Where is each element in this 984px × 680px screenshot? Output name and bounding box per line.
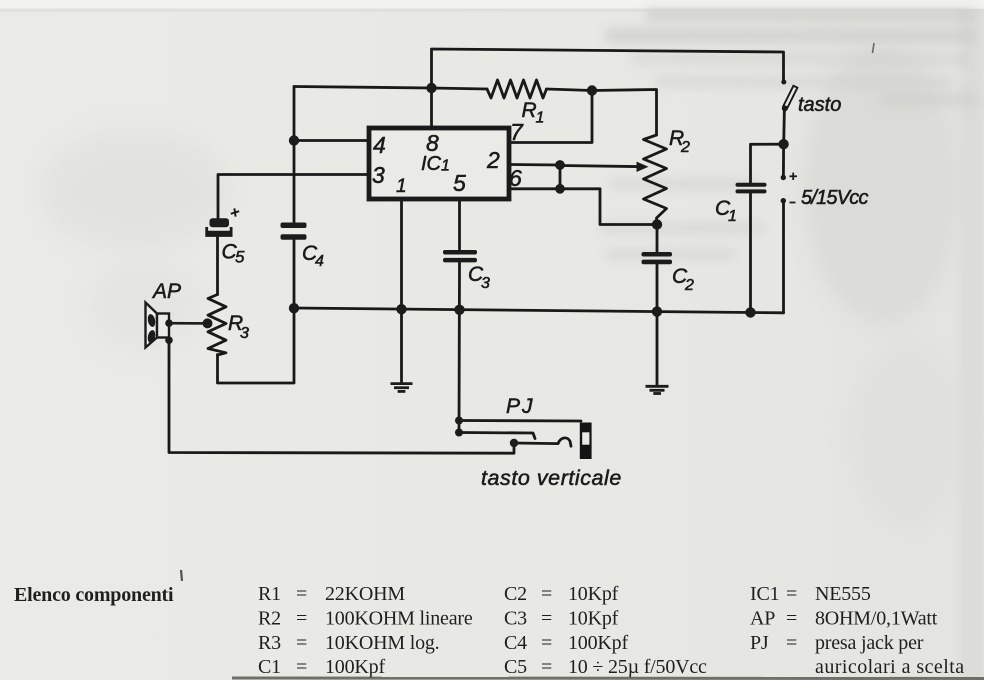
capacitor C1 <box>736 183 767 194</box>
junction: pin 2 node <box>555 160 565 170</box>
capacitor C4 <box>281 223 307 240</box>
svg-text:PJ: PJ <box>750 632 769 654</box>
svg-text:2: 2 <box>486 147 500 173</box>
svg-text:Elenco componenti: Elenco componenti <box>14 584 174 606</box>
svg-text:PJ: PJ <box>506 395 535 418</box>
svg-text:4: 4 <box>373 132 386 158</box>
svg-text:AP: AP <box>151 280 181 303</box>
svg-text:100KOHM lineare: 100KOHM lineare <box>325 608 473 630</box>
svg-text:1: 1 <box>441 158 450 175</box>
junction: bus / pin 5 node <box>454 305 464 315</box>
svg-text:100Kpf: 100Kpf <box>568 632 628 654</box>
svg-text:auricolari a scelta: auricolari a scelta <box>815 656 965 678</box>
svg-text:2: 2 <box>684 277 694 294</box>
wire R3 bottom return <box>218 309 295 384</box>
battery + terminal <box>781 175 786 180</box>
wire jack ring line <box>459 433 535 439</box>
svg-text:3: 3 <box>372 162 385 188</box>
svg-text:=: = <box>296 656 307 678</box>
svg-text:NE555: NE555 <box>815 583 871 605</box>
page bottom edge line <box>232 677 984 680</box>
junction: R3 wiper node <box>203 318 213 328</box>
svg-text:=: = <box>786 583 797 605</box>
junction: switch / C1 node <box>778 139 788 149</box>
svg-text:=: = <box>786 632 797 654</box>
svg-text:=: = <box>541 656 552 678</box>
resistor R2 (potentiometer) <box>644 135 667 225</box>
ground (pin 1) <box>391 384 413 392</box>
svg-text:=: = <box>296 632 307 654</box>
svg-text:R2: R2 <box>258 608 281 630</box>
junction: Vcc / pin 8 node <box>426 83 436 93</box>
wire C2 to bus and ground <box>656 265 659 386</box>
svg-text:AP: AP <box>750 608 775 630</box>
junction: pin 6 node <box>555 184 565 194</box>
switch tasto lever (hollow) <box>783 86 797 108</box>
svg-text:10 ÷ 25µ f/50Vcc: 10 ÷ 25µ f/50Vcc <box>568 656 707 678</box>
wire pin 4 <box>294 139 369 142</box>
R2 wiper arrowhead <box>637 162 649 172</box>
junction: R2 bottom node <box>652 219 662 229</box>
svg-text:5: 5 <box>453 170 466 196</box>
svg-text:3: 3 <box>240 325 249 342</box>
svg-text:R3: R3 <box>258 632 281 654</box>
svg-text:=: = <box>541 632 552 654</box>
wire C1 branch <box>749 193 752 312</box>
svg-text:R1: R1 <box>258 583 281 605</box>
capacitor C5 (electrolytic) <box>205 218 232 237</box>
speaker AP <box>146 303 208 348</box>
junction: bus / C2 node <box>652 306 662 316</box>
wire AP bottom to jack tip <box>169 340 514 453</box>
svg-text:1: 1 <box>728 208 737 225</box>
wire C5 to R3 <box>216 237 219 295</box>
svg-text:R: R <box>522 99 537 122</box>
junction: jack tip node <box>510 439 518 447</box>
wire pin2-pin6 link <box>559 165 562 189</box>
svg-text:C1: C1 <box>258 656 281 678</box>
svg-text:1: 1 <box>396 176 407 197</box>
wire R1 right lead to node <box>547 89 593 91</box>
wire R1 left lead <box>432 88 488 89</box>
wire R2 wiper arrow <box>560 166 637 167</box>
svg-text:=: = <box>541 583 552 605</box>
svg-text:8OHM/0,1Watt: 8OHM/0,1Watt <box>815 608 938 630</box>
AP bottom terminal <box>165 336 173 344</box>
svg-text:10KOHM log.: 10KOHM log. <box>325 632 439 654</box>
svg-text:7: 7 <box>510 119 524 145</box>
wire pin 7 <box>509 91 592 143</box>
resistor R3 <box>208 295 226 356</box>
wire Vcc horizontal to R1 node <box>294 87 432 89</box>
svg-text:10Kpf: 10Kpf <box>568 583 619 605</box>
svg-text:=: = <box>296 583 307 605</box>
AP top terminal <box>165 319 173 327</box>
svg-text:10Kpf: 10Kpf <box>568 608 619 630</box>
svg-text:=: = <box>786 608 797 630</box>
junction: bus left / C4-R3 node <box>289 303 299 313</box>
svg-text:4: 4 <box>315 253 324 270</box>
capacitor C3 <box>443 250 477 262</box>
svg-text:IC: IC <box>421 153 442 175</box>
wire vertical C4 branch <box>293 87 296 223</box>
wire pin 6 to R2 bottom <box>509 189 657 225</box>
wire pin 5 / C3 branch to jack <box>458 199 461 250</box>
svg-text:tasto verticale: tasto verticale <box>481 466 622 490</box>
battery - terminal <box>781 198 786 203</box>
jack PJ plug body <box>580 423 592 460</box>
op-amp IC1 (NE555 box) <box>369 128 509 199</box>
ground (C2) <box>646 386 669 393</box>
svg-text:1: 1 <box>536 110 545 127</box>
svg-text:2: 2 <box>680 139 690 156</box>
junction: bus / pin 1 node <box>396 304 406 314</box>
svg-text:3: 3 <box>481 275 490 292</box>
svg-text:22KOHM: 22KOHM <box>325 583 405 605</box>
svg-text:8: 8 <box>426 130 439 156</box>
wire node to R2 top <box>592 90 657 136</box>
junction: jack ring node <box>455 429 463 437</box>
wire battery branch <box>782 201 785 313</box>
wire pin 3 to C5 <box>218 175 369 219</box>
junction: jack sleeve node <box>455 417 463 425</box>
wire ground bus <box>294 308 784 313</box>
wire R2 bottom to C2 <box>656 225 659 253</box>
svg-text:=: = <box>541 608 552 630</box>
wire jack tip spring <box>514 438 571 446</box>
junction: pin 4 / C4 branch node <box>289 135 299 145</box>
svg-text:C3: C3 <box>504 608 527 630</box>
battery polarity marks <box>790 173 798 203</box>
svg-text:5/15Vcc: 5/15Vcc <box>801 187 868 209</box>
svg-text:=: = <box>296 608 307 630</box>
junction: R1 right / pin 7 node <box>587 85 597 95</box>
svg-text:5: 5 <box>235 248 245 267</box>
junction: bus / C1 node <box>745 307 755 317</box>
wire pin 1 to ground <box>400 199 403 383</box>
switch top contact <box>781 80 786 85</box>
paper bleed-through artifacts <box>805 45 960 325</box>
svg-text:tasto: tasto <box>798 94 841 116</box>
resistor R1 <box>487 80 547 98</box>
wire jack sleeve line <box>459 419 581 422</box>
capacitor C2 <box>642 252 673 264</box>
wire top loop pin8 to battery <box>432 49 784 128</box>
wire pin 2 <box>509 163 560 166</box>
svg-text:C2: C2 <box>504 583 527 605</box>
svg-text:C5: C5 <box>504 656 527 678</box>
svg-text:IC1: IC1 <box>750 583 779 605</box>
C5 plus sign <box>231 208 239 216</box>
svg-text:C4: C4 <box>504 632 527 654</box>
svg-text:6: 6 <box>509 165 522 191</box>
svg-text:presa jack per: presa jack per <box>815 632 924 654</box>
svg-text:100Kpf: 100Kpf <box>325 656 385 678</box>
